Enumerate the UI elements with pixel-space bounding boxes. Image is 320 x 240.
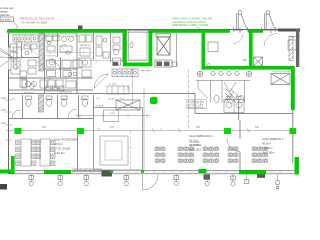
dashed survey line vertical center lower <box>130 131 132 170</box>
vertical dim line in hall <box>131 68 135 105</box>
door below bottom wall <box>143 175 159 191</box>
fixtures left of shaft <box>113 37 121 66</box>
svg-text:685: 685 <box>196 126 201 129</box>
door symbol 2 top <box>262 11 276 32</box>
text box above sala1 <box>187 100 207 110</box>
text label above left chairs <box>96 98 125 108</box>
door arc top room2 (from top door) <box>233 34 243 44</box>
svg-text:gr. blach: gr. blach <box>109 83 118 86</box>
black annotation box <box>0 17 14 22</box>
svg-text:MAGAZYN: MAGAZYN <box>80 44 91 47</box>
bottom right green corner <box>295 157 300 175</box>
svg-text:240: 240 <box>1 121 6 125</box>
door arc stairwell <box>264 34 277 47</box>
svg-text:KUCHNIA: KUCHNIA <box>12 46 22 49</box>
wall x77 lower <box>77 134 79 170</box>
left edge dimension ticks <box>5 100 12 140</box>
green U-shaft bottom <box>123 63 152 67</box>
U-shaft inner rect <box>129 31 148 60</box>
svg-text:SKLAD: SKLAD <box>108 98 115 101</box>
extra fixtures service block <box>24 42 91 77</box>
green leader line <box>196 27 203 30</box>
bottom wall green L left <box>0 170 15 174</box>
service block inner walls extra <box>8 42 77 78</box>
ticks on main dimension line <box>17 129 294 133</box>
svg-text:17-20 OSOB: 17-20 OSOB <box>54 147 70 151</box>
bottom wall thin line <box>0 170 299 174</box>
green square column 3 <box>150 97 158 104</box>
inner face line <box>8 33 44 35</box>
svg-text:440: 440 <box>127 85 130 90</box>
red annotation text top-left <box>20 17 55 25</box>
svg-text:4x12,38m: 4x12,38m <box>190 144 201 147</box>
right outer wall top <box>296 29 299 67</box>
fixture row under counter <box>107 86 129 94</box>
door gap tick <box>239 28 241 34</box>
svg-text:55: 55 <box>20 65 22 67</box>
green square column 4 <box>224 128 231 134</box>
svg-text:594: 594 <box>42 126 47 129</box>
leader lines service block <box>30 44 78 90</box>
toilet stalls <box>196 81 250 104</box>
door arcs center <box>94 74 109 89</box>
left vertical dimension line <box>8 33 10 170</box>
sinks row right <box>224 97 244 113</box>
bottom wall green dot <box>141 170 144 173</box>
bottom wall green segment 4 <box>239 170 266 174</box>
dim ticks on y115 line <box>80 114 147 118</box>
extra fixtures along x112-122 <box>113 33 123 62</box>
svg-text:nco dowcl: nco dowcl <box>1 19 12 21</box>
svg-text:120: 120 <box>20 49 23 51</box>
svg-text:647: 647 <box>110 126 115 129</box>
text sala posiedzen left <box>54 138 78 156</box>
dark block under wall right <box>257 174 265 178</box>
dim ticks right of counter <box>140 69 152 73</box>
hatched column toilet row <box>39 95 44 112</box>
door arc kitchen <box>24 45 60 70</box>
svg-text:POM. SOCJ: POM. SOCJ <box>46 56 57 58</box>
X-box small above green wall <box>254 57 263 66</box>
svg-text:MALOWANA 2x: MALOWANA 2x <box>188 107 206 110</box>
bottom dark block <box>102 171 113 177</box>
svg-text:SALA ZEBRANIA 1: SALA ZEBRANIA 1 <box>189 134 213 138</box>
green U-shaft right vertical <box>149 30 153 66</box>
shaft lines next to elevator <box>176 33 178 66</box>
text sala zebrania 1 <box>189 134 213 152</box>
svg-text:4x12,38m: 4x12,38m <box>189 148 202 152</box>
green annotation text top-middle <box>172 17 213 28</box>
svg-text:SALA POSIEDZEN: SALA POSIEDZEN <box>54 138 78 142</box>
leader line <box>14 22 19 30</box>
svg-text:TA NOWA 42.60M: TA NOWA 42.60M <box>21 21 47 25</box>
svg-text:SCENA: SCENA <box>96 105 104 108</box>
green square column 2 <box>77 128 84 134</box>
stage rect bottom <box>100 136 128 165</box>
svg-text:4x10,8m: 4x10,8m <box>54 151 65 155</box>
svg-text:590: 590 <box>255 126 260 129</box>
kitchen block walls <box>8 33 195 94</box>
bottom wall centerline <box>8 171 296 173</box>
extra clutter kitchen column1 <box>22 36 109 91</box>
room 2 cabinet <box>208 42 218 52</box>
bottom sill gray <box>72 169 102 171</box>
wall x110 service <box>110 33 112 62</box>
dark block under wall mid <box>204 174 211 179</box>
interior green vertical wall x250 <box>249 31 253 69</box>
faint dim y52 <box>46 51 93 55</box>
right wall lower <box>292 110 294 163</box>
stage rect top <box>104 110 119 122</box>
wall x144 hall right <box>143 88 145 170</box>
svg-text:SALA ZEBRAN 2: SALA ZEBRAN 2 <box>262 137 284 141</box>
top wall green segment B <box>148 30 230 33</box>
top wall gray line <box>8 29 278 31</box>
svg-text:46,0m²: 46,0m² <box>54 142 63 146</box>
right green vertical wall <box>291 66 295 110</box>
kitchen left fixtures <box>10 44 20 74</box>
svg-text:90: 90 <box>20 59 22 61</box>
svg-text:45,9m²: 45,9m² <box>262 142 271 146</box>
big hall outline <box>94 108 143 171</box>
left dim tick column <box>14 38 19 70</box>
top wall green segment A <box>7 30 127 33</box>
dashed survey line vertical center <box>188 70 190 130</box>
small block above wall x80 <box>78 26 83 30</box>
diag stairs bottom-left of bath block <box>225 88 238 104</box>
svg-text:OBROBIONO LAMPA I OSADZ: OBROBIONO LAMPA I OSADZ <box>172 23 209 27</box>
appliance counter center <box>112 69 138 77</box>
elevator X-box <box>156 34 171 55</box>
svg-text:WC M: WC M <box>62 99 68 101</box>
big X-box right room <box>271 74 290 85</box>
service room fixtures <box>46 35 92 68</box>
svg-text:7 SOFLI: 7 SOFLI <box>262 146 273 150</box>
black annotation text top-left <box>0 7 14 21</box>
X-box above hall <box>116 100 140 110</box>
top wall green segment C <box>248 30 263 33</box>
svg-text:PRALNIA: PRALNIA <box>24 92 34 95</box>
bottom wall green segment 2 <box>44 170 71 174</box>
kitchen counters top <box>13 35 38 42</box>
tiny labels service block <box>12 44 118 101</box>
stairwell hatched column <box>289 37 300 61</box>
auditorium chairs <box>155 147 268 163</box>
dim chain mid service <box>44 59 150 63</box>
left outer wall <box>8 33 10 170</box>
column symbols below wall <box>29 174 280 189</box>
svg-text:praw tofa: praw tofa <box>0 14 10 17</box>
toilet row walls <box>8 95 94 119</box>
green square column 1 <box>15 128 22 134</box>
interior green horizontal wall y67 <box>202 66 295 70</box>
washer fixtures left <box>20 71 27 87</box>
interior green vertical wall x203 <box>202 31 206 69</box>
svg-text:3x10,88m: 3x10,88m <box>262 151 275 155</box>
table group B <box>36 139 55 166</box>
wall sala zebran divider <box>239 100 240 170</box>
top wall dark segment right <box>278 29 300 32</box>
bottom-left corner blob <box>0 184 7 190</box>
svg-text:2,9m: 2,9m <box>62 45 67 47</box>
hatched wall band kitchen <box>39 33 44 71</box>
dimension line horizontal mid <box>6 116 296 131</box>
green square column 5 <box>290 128 297 134</box>
dark appliances kitchen2 <box>155 60 177 67</box>
window lines in top wall gap <box>127 31 278 33</box>
svg-text:POMIESZCZENIE: POMIESZCZENIE <box>272 72 290 74</box>
svg-text:WC D: WC D <box>46 99 52 101</box>
bottom wall green dot 2 <box>110 170 113 173</box>
left door swing funnel <box>0 47 13 69</box>
door symbol 1 top <box>234 11 248 32</box>
svg-text:44,1: 44,1 <box>110 112 115 115</box>
12 SOFLI label above chairs <box>190 141 201 147</box>
svg-text:os obna stua: os obna stua <box>0 7 14 10</box>
svg-text:240: 240 <box>1 108 6 112</box>
green U-shaft left vertical <box>123 30 127 66</box>
hatched strip under top wall <box>45 34 76 37</box>
svg-text:240: 240 <box>1 96 6 100</box>
table group A <box>16 139 37 166</box>
toilet fixtures row <box>12 96 88 118</box>
svg-text:WC: WC <box>12 99 16 101</box>
door arc sala 2 <box>227 139 240 152</box>
corridor circles row <box>197 71 252 77</box>
text sala zebran 2 <box>262 137 284 155</box>
bathroom bottom wall <box>195 94 293 114</box>
svg-text:obrobal: obrobal <box>0 11 8 14</box>
more tiny dim texts <box>97 129 163 131</box>
svg-text:UMYW: UMYW <box>80 99 87 101</box>
small box stairwell <box>288 40 296 50</box>
svg-text:(5x): (5x) <box>243 58 248 62</box>
laundry machines <box>25 80 76 88</box>
bottom wall green segment 3 <box>199 169 207 173</box>
